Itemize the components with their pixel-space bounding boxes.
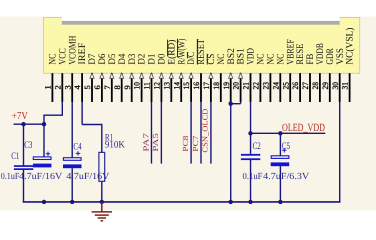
pin 15 overline (C): [186, 52, 188, 58]
capacitor C2 0.1uF: [241, 154, 260, 156]
svg-text:14: 14: [172, 82, 181, 89]
pin 17 analog-input triangle: [209, 73, 213, 78]
svg-text:+7V: +7V: [12, 111, 28, 122]
pin 17 full overline: [206, 54, 208, 65]
svg-text:10: 10: [133, 82, 142, 89]
svg-text:C5: C5: [282, 141, 290, 152]
junction C5/gnd bus dot: [278, 200, 282, 204]
svg-text:18: 18: [212, 82, 221, 89]
capacitor C4 4.7uF/16V (electrolytic): [63, 158, 81, 161]
svg-text:PA7: PA7: [141, 133, 150, 152]
pin 9 (D3) stub: [131, 73, 133, 102]
resistor R1 910K: [99, 152, 105, 181]
pin 4 (IREF) stub: [81, 73, 83, 102]
pin 17 (CS) stub: [210, 73, 212, 102]
wire C2 bottom to gnd bus: [250, 159, 252, 202]
junction OLED_VDD/C5 dot: [278, 131, 282, 135]
ground symbol: [92, 202, 112, 221]
pin 6 (D6) stub: [101, 73, 103, 102]
wire pin4 IREF down: [81, 102, 83, 125]
wire pin20 BS1 down: [240, 102, 242, 104]
wire C4 bottom to gnd bus: [71, 168, 73, 202]
junction R1/gnd bus dot: [100, 200, 104, 204]
svg-text:C4: C4: [73, 142, 81, 153]
pin 7 analog-input triangle: [110, 73, 114, 78]
pin 14 (R/W(W)) stub: [180, 73, 182, 102]
pin 3 (VCOMH) stub: [71, 73, 73, 102]
wire OLED_VDD to C5 top: [279, 133, 281, 156]
pin 19 (BS2) stub: [230, 73, 232, 102]
svg-text:C1: C1: [11, 151, 19, 162]
junction C3/gnd bus dot: [42, 200, 46, 204]
junction VDD/OLED_VDD dot: [248, 131, 252, 135]
junction C2/gnd bus dot: [248, 200, 252, 204]
svg-text:4.7uF/16V: 4.7uF/16V: [19, 172, 62, 182]
pin 22 (NC) stub: [259, 73, 261, 102]
pin 25 (VBREF) stub: [289, 73, 291, 102]
svg-text:5: 5: [83, 85, 92, 89]
wire pin3 VCOMH to C4 top: [71, 102, 73, 159]
pin 28 (VDDB) stub: [319, 73, 321, 102]
svg-text:13: 13: [162, 82, 171, 89]
junction BS/gnd bus dot: [229, 200, 233, 204]
wire pin19 BS2 down to gnd bus: [230, 102, 232, 202]
capacitor C5 4.7uF/6.3V (electrolytic): [271, 156, 289, 159]
svg-text:9: 9: [123, 85, 132, 89]
svg-text:1: 1: [44, 85, 53, 89]
pin 6 analog-input triangle: [100, 73, 104, 78]
svg-text:17: 17: [202, 82, 211, 89]
svg-text:2: 2: [53, 85, 62, 89]
pin 13 overline (RD): [167, 40, 169, 57]
svg-text:8: 8: [113, 85, 122, 89]
pin 23 (NC) stub: [269, 73, 271, 102]
pin 15 analog-input triangle: [189, 73, 193, 78]
pin 9 analog-input triangle: [130, 73, 134, 78]
capacitor C1 0.1uF: [14, 165, 33, 167]
svg-text:4.7uF/6.3V: 4.7uF/6.3V: [263, 172, 309, 182]
svg-text:21: 21: [242, 82, 251, 89]
svg-text:3: 3: [63, 85, 72, 89]
wire pin12 D0 (net PA5): [160, 102, 162, 164]
svg-text:26: 26: [291, 82, 300, 89]
pin 10 (D2) stub: [141, 73, 143, 102]
svg-text:19: 19: [222, 82, 231, 89]
svg-text:24: 24: [271, 82, 280, 89]
wire pin16 RESET (net PC7): [200, 102, 202, 164]
pin 2 (VCC) stub: [61, 73, 63, 102]
pin 5 (D7) stub: [91, 73, 93, 102]
pin 8 (D4) stub: [121, 73, 123, 102]
pin 7 (D5) stub: [111, 73, 113, 102]
wire pin2 VCC down: [61, 102, 63, 116]
pin 30 (VSS) stub: [339, 73, 341, 102]
wire pin20 BS1 to BS2 join: [231, 103, 241, 105]
svg-text:NC(VSL): NC(VSL): [345, 28, 356, 65]
pin 31 (NC(VSL)) stub: [349, 73, 351, 102]
wire pin17 CS (net CSN_OLCD): [210, 102, 212, 164]
wire VCC to rail and C3 top: [43, 115, 45, 158]
svg-text:C3: C3: [24, 140, 32, 151]
svg-text:12: 12: [153, 82, 162, 89]
OLED_VDD branch wire: [251, 132, 326, 134]
pin 13 analog-input triangle: [169, 73, 173, 78]
pin 16 full overline: [196, 39, 198, 65]
junction +7V/C1 dot: [21, 122, 25, 126]
pin 11 (D1) stub: [151, 73, 153, 102]
pin 15 (D/C) stub: [190, 73, 192, 102]
wire rail to C1 top: [23, 124, 25, 165]
pin 14 overline (W): [177, 39, 179, 58]
svg-text:29: 29: [321, 82, 330, 89]
wire C5 bottom to gnd bus: [279, 166, 281, 202]
pin 14 analog-input triangle: [179, 73, 183, 78]
pin 1 (NC) stub: [51, 73, 53, 102]
pin 16 (RESET) stub: [200, 73, 202, 102]
svg-text:910K: 910K: [105, 140, 126, 151]
svg-text:11: 11: [143, 82, 152, 89]
pin 20 (BS1) stub: [240, 73, 242, 102]
svg-text:22: 22: [252, 82, 261, 89]
svg-text:23: 23: [262, 82, 271, 89]
pin 13 (E(RD)) stub: [170, 73, 172, 102]
wire pin30 VSS down: [339, 102, 341, 203]
svg-text:6: 6: [93, 85, 102, 89]
pin 5 analog-input triangle: [90, 73, 94, 78]
svg-text:4.7uF/16V: 4.7uF/16V: [66, 172, 109, 182]
svg-text:25: 25: [281, 82, 290, 89]
svg-text:28: 28: [311, 82, 320, 89]
OLED panel glass bar: [62, 16, 340, 21]
svg-text:OLED_VDD: OLED_VDD: [282, 122, 325, 134]
svg-text:31: 31: [341, 82, 350, 89]
svg-text:20: 20: [232, 82, 241, 89]
capacitor C3 4.7uF/16V (electrolytic): [33, 157, 51, 160]
svg-text:15: 15: [182, 82, 191, 89]
junction C4/gnd bus dot: [70, 200, 74, 204]
OLED connector body (31-pin): [44, 17, 360, 73]
pin 12 analog-input triangle: [159, 73, 163, 78]
wire to R1 top: [101, 124, 103, 153]
pin 26 (RESE) stub: [299, 73, 301, 102]
pin 12 (D0) stub: [160, 73, 162, 102]
svg-text:PC8: PC8: [181, 135, 190, 151]
+7V rail wire: [14, 123, 45, 125]
pin 19 analog-input triangle: [229, 73, 233, 78]
svg-text:30: 30: [331, 82, 340, 89]
svg-text:16: 16: [192, 82, 201, 89]
pin 11 analog-input triangle: [149, 73, 153, 78]
wire pin4 IREF right: [82, 124, 102, 126]
pin 18 (NC) stub: [220, 73, 222, 102]
svg-text:C2: C2: [253, 141, 261, 152]
wire pin2 VCC left: [44, 114, 63, 116]
wire pin15 D/C (net PC8): [190, 102, 192, 164]
svg-text:4: 4: [73, 85, 82, 89]
pin 24 (NC) stub: [279, 73, 281, 102]
pin 27 (FB) stub: [309, 73, 311, 102]
wire pin21 VDD down to C2 top: [250, 102, 252, 155]
svg-text:0.1uF: 0.1uF: [1, 172, 20, 182]
pin 20 analog-input triangle: [239, 73, 243, 78]
junction rail/VCC/C3 dot: [42, 122, 46, 126]
pin 21 (VDD) stub: [250, 73, 252, 102]
svg-text:PC7: PC7: [191, 135, 200, 151]
svg-text:0.1uF: 0.1uF: [243, 172, 263, 182]
junction BS1/BS2 dot: [229, 102, 233, 106]
pin 8 analog-input triangle: [120, 73, 124, 78]
pin 10 analog-input triangle: [140, 73, 144, 78]
svg-text:27: 27: [301, 82, 310, 89]
ground bus wire: [23, 201, 341, 203]
svg-text:7: 7: [103, 85, 112, 89]
wire bus right corner: [339, 201, 342, 203]
wire pin11 D1 (net PA7): [150, 102, 152, 164]
pin 29 (GDR) stub: [329, 73, 331, 102]
svg-text:CSN_OLCD: CSN_OLCD: [201, 108, 210, 152]
svg-text:PA5: PA5: [151, 133, 160, 152]
wire C1 bottom to gnd bus: [23, 169, 25, 203]
wire R1 bottom to gnd bus: [101, 181, 103, 202]
